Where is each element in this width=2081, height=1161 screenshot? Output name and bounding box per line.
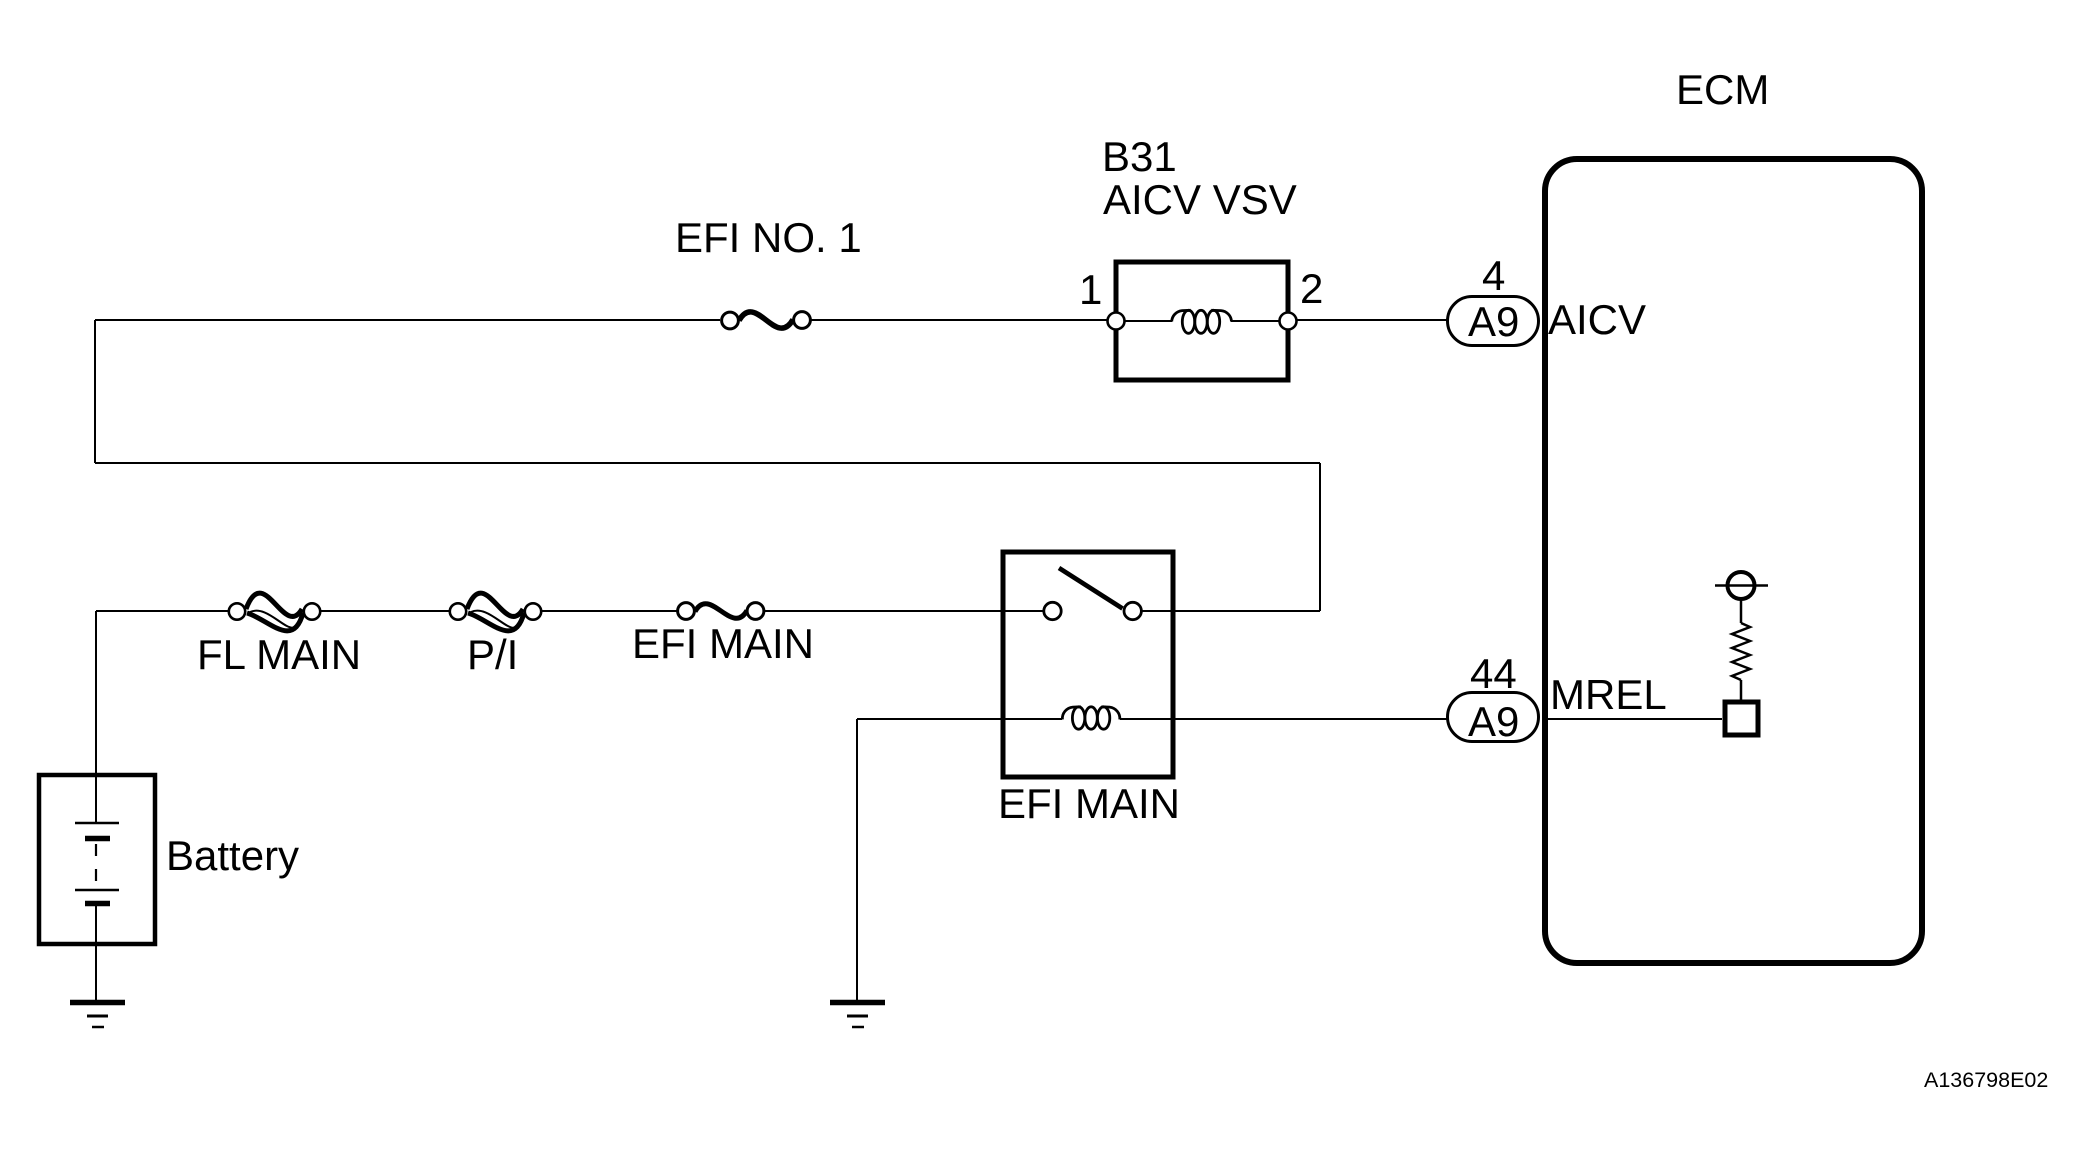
relay coil <box>1062 707 1119 729</box>
fusible link FL MAIN <box>229 593 320 631</box>
svg-text:EFI MAIN: EFI MAIN <box>998 780 1180 827</box>
wire MREL ground corner to relay coil <box>857 718 1062 720</box>
relay switch contact left <box>1044 602 1061 619</box>
wire VSV pin 2 to A9 connector <box>1297 319 1447 321</box>
fuse EFI MAIN <box>678 603 764 620</box>
svg-text:4: 4 <box>1482 252 1505 299</box>
VSV pin 2 circle <box>1280 313 1297 330</box>
wire left vertical of feedback loop <box>94 320 96 463</box>
svg-text:FL MAIN: FL MAIN <box>197 631 361 678</box>
ECM internal power node circle <box>1728 572 1755 599</box>
VSV coil <box>1172 310 1232 333</box>
svg-text:44: 44 <box>1470 650 1517 697</box>
svg-text:B31: B31 <box>1102 133 1177 180</box>
VSV internal wire <box>1125 320 1172 322</box>
battery plate short thick bottom <box>85 901 110 907</box>
svg-text:MREL: MREL <box>1550 671 1667 718</box>
battery dashed cell separator <box>95 844 97 888</box>
wire FL MAIN to P/I <box>321 610 450 612</box>
svg-text:A136798E02: A136798E02 <box>1924 1068 2048 1092</box>
VSV pin 1 circle <box>1108 313 1125 330</box>
battery internal wire top <box>95 773 97 823</box>
svg-text:EFI MAIN: EFI MAIN <box>632 620 814 667</box>
connector oval A9 pin 4 AICV <box>1448 297 1539 346</box>
wire top row fuse to VSV pin 1 <box>811 319 1107 321</box>
svg-text:A9: A9 <box>1468 298 1519 345</box>
wire circle to resistor <box>1740 599 1743 623</box>
battery internal wire bottom <box>95 906 97 946</box>
fuse EFI NO. 1 <box>722 312 811 329</box>
battery B box <box>39 775 155 944</box>
battery plate long top <box>75 822 119 825</box>
wire loop right vertical down to relay row <box>1319 463 1321 611</box>
VSV B31 box <box>1116 262 1288 380</box>
ECM internal power node crossbar <box>1715 584 1768 587</box>
ground symbol battery <box>70 1003 125 1028</box>
wire battery vertical up to row <box>95 611 97 773</box>
relay switch blade <box>1059 568 1123 609</box>
wire battery to ground <box>95 944 97 1001</box>
battery plate short thick top <box>85 836 110 842</box>
battery plate long bottom <box>75 889 119 892</box>
connector oval A9 pin 44 MREL <box>1448 693 1539 746</box>
ECM transistor square <box>1725 702 1758 735</box>
wire P/I to EFI MAIN fuse <box>542 610 677 612</box>
fusible link P/I <box>450 593 541 631</box>
svg-text:AICV VSV: AICV VSV <box>1103 176 1297 223</box>
svg-text:EFI NO. 1: EFI NO. 1 <box>675 214 862 261</box>
ECM box <box>1545 159 1922 963</box>
relay EFI MAIN box <box>1003 552 1173 777</box>
wire relay switch to loop corner <box>1142 610 1320 612</box>
svg-text:ECM: ECM <box>1676 66 1769 113</box>
ground symbol relay coil <box>830 1003 885 1028</box>
svg-text:1: 1 <box>1079 266 1102 313</box>
resistor zigzag <box>1732 623 1750 680</box>
svg-text:AICV: AICV <box>1548 296 1646 343</box>
svg-text:Battery: Battery <box>166 832 299 879</box>
wire EFI MAIN fuse to relay <box>765 610 1043 612</box>
svg-text:P/I: P/I <box>467 631 518 678</box>
wire MREL ground vertical <box>856 719 858 1001</box>
svg-text:A9: A9 <box>1468 698 1519 745</box>
wire resistor to square <box>1740 680 1743 700</box>
wire relay coil to A9 MREL connector <box>1120 718 1447 720</box>
wire battery row to FL MAIN <box>96 610 228 612</box>
wire top row from left loop to EFI NO.1 fuse <box>95 319 720 321</box>
wire ECM border to transistor square <box>1548 718 1722 720</box>
svg-text:2: 2 <box>1300 265 1323 312</box>
wire loop horizontal <box>95 462 1320 464</box>
relay switch contact right <box>1124 602 1141 619</box>
